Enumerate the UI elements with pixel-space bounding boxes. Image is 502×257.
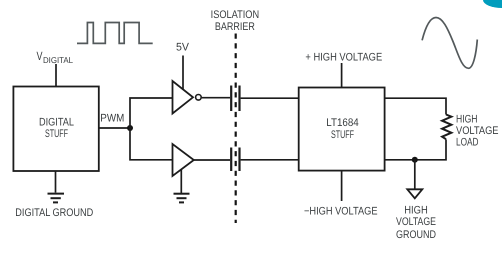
wire LT1684 top right to load resistor bbox=[385, 98, 446, 114]
wire +HV to LT1684 box bbox=[341, 63, 343, 88]
svg-text:LT1684: LT1684 bbox=[326, 117, 359, 129]
svg-text:GROUND: GROUND bbox=[396, 229, 436, 241]
digital stuff box bbox=[13, 87, 98, 172]
wire inverter output to capacitor C1 bbox=[202, 97, 230, 99]
wire junction down to buffer input bbox=[130, 128, 173, 160]
svg-text:HIGH: HIGH bbox=[404, 204, 428, 216]
svg-text:ISOLATION: ISOLATION bbox=[211, 9, 260, 21]
svg-text:V: V bbox=[37, 49, 43, 63]
svg-text:HIGH: HIGH bbox=[456, 113, 478, 125]
node PWM junction dot bbox=[127, 125, 133, 131]
svg-text:STUFF: STUFF bbox=[45, 128, 68, 140]
svg-text:DIGITAL: DIGITAL bbox=[39, 116, 74, 128]
svg-text:VOLTAGE: VOLTAGE bbox=[396, 216, 436, 228]
wire capacitor C1 to LT1684 box bbox=[241, 97, 299, 99]
wire junction to HV ground bbox=[414, 160, 416, 189]
capacitor C1 (upper isolation cap) bbox=[231, 86, 239, 112]
svg-text:DIGITAL: DIGITAL bbox=[43, 55, 73, 65]
svg-text:5V: 5V bbox=[176, 42, 190, 54]
resistor R1 high voltage load bbox=[442, 115, 451, 140]
svg-text:STUFF: STUFF bbox=[331, 129, 354, 141]
svg-text:VOLTAGE: VOLTAGE bbox=[456, 125, 499, 137]
node junction dot on -HV rail bbox=[412, 157, 418, 163]
wire buffer output to capacitor C2 bbox=[194, 159, 230, 161]
capacitor C2 (lower isolation cap) bbox=[231, 148, 239, 172]
wire PWM from digital box to junction bbox=[99, 127, 130, 129]
digital ground symbol bbox=[48, 194, 65, 203]
buffer U2 (lower) bbox=[173, 144, 194, 176]
svg-text:PWM: PWM bbox=[100, 112, 124, 124]
PWM square waveform icon bbox=[77, 23, 153, 44]
svg-text:−HIGH VOLTAGE: −HIGH VOLTAGE bbox=[304, 206, 378, 218]
wire capacitor C2 to LT1684 box bbox=[241, 159, 299, 161]
svg-text:+ HIGH VOLTAGE: + HIGH VOLTAGE bbox=[305, 51, 382, 63]
wire resistor bottom to LT1684 bbox=[385, 139, 446, 159]
buffer ground symbol bbox=[174, 194, 190, 203]
isolation barrier dashed line bbox=[235, 34, 237, 224]
svg-text:LOAD: LOAD bbox=[456, 136, 479, 148]
wire VDIGITAL to digital box bbox=[55, 64, 57, 87]
svg-text:DIGITAL GROUND: DIGITAL GROUND bbox=[15, 207, 93, 219]
wire junction up to inverter input bbox=[130, 98, 173, 128]
svg-text:BARRIER: BARRIER bbox=[215, 21, 255, 33]
high voltage ground symbol (open triangle) bbox=[407, 189, 422, 198]
wire 5V to inverter bbox=[182, 56, 184, 90]
sine waveform icon bbox=[422, 18, 477, 69]
LT1684 stuff box bbox=[299, 88, 385, 171]
wire digital box to ground bbox=[55, 171, 57, 193]
inverter U1 (upper, with bubble) bbox=[173, 81, 194, 114]
wire buffer to ground bbox=[180, 170, 182, 194]
corner graphic (teal page corner) bbox=[483, 0, 502, 8]
wire LT1684 box to -HV bbox=[341, 171, 343, 201]
